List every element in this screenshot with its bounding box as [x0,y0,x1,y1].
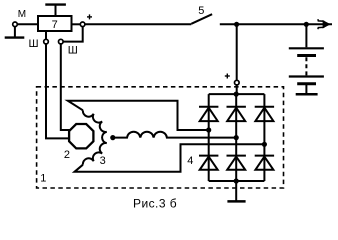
wire: switch to arrow end [220,23,332,25]
wire: box to plus node [72,23,81,25]
switch 5 [191,14,212,24]
wire: right brush to plus node [63,27,83,42]
diode VD5 bottom-middle [227,155,246,157]
diode VD1 top-left [199,106,218,108]
ground: regulator top chassis [55,5,57,16]
svg-text:3: 3 [100,155,106,167]
ground: bridge bottom chassis [235,181,237,201]
svg-text:7: 7 [52,19,58,31]
star point [110,135,115,140]
phase lead bottom [75,144,265,172]
generator housing 1 (dashed) [37,87,284,188]
terminal Sh right [59,39,64,44]
svg-text:2: 2 [64,149,70,161]
wire: bridge plus up to main wire [236,24,238,94]
regulator box 7 [38,16,72,31]
svg-text:Ш: Ш [29,38,39,50]
label plus at generator terminal [225,74,230,79]
wire: junction down to battery [305,24,307,47]
battery GB: dashed cell link [305,57,307,76]
node: top bus junction [234,92,239,97]
diode VD4 bottom-left [199,155,218,157]
terminal plus of generator [235,80,240,85]
wire: box bottom stub to left brush [45,31,47,39]
node: bottom bus junction [234,178,239,183]
node: phase C junction [262,142,267,147]
arrow: to consumers [323,21,329,28]
diode VD2 top-middle [227,106,246,108]
svg-text:М: М [18,9,26,20]
terminal plus of regulator [80,22,85,27]
battery GB: plate short 1 [297,54,316,57]
rectifier 4: bottom bus [209,180,265,182]
label plus at regulator [87,14,92,19]
node: phase A junction [206,127,211,132]
rotor 2 [69,124,93,148]
ground: battery chassis bar [296,93,318,96]
rectifier 4: top bus [209,93,265,95]
rectifier 4: left column [208,94,210,181]
phase lead top [68,101,209,130]
rectifier 4: right column [263,94,265,181]
wire: right brush lead into generator [61,44,70,130]
terminal M [13,22,18,27]
battery GB: plate long 1 [289,47,324,49]
diode VD3 top-right [255,106,274,108]
svg-text:1: 1 [40,173,46,185]
svg-text:Рис.3 б: Рис.3 б [133,197,177,211]
node: junction main wire to battery [304,22,309,27]
wire: M terminal to box [17,23,38,25]
svg-text:Ш: Ш [68,45,78,57]
wire: main plus bus from regulator to switch [85,23,191,25]
node: junction main wire to generator plus [234,22,239,27]
ground: M terminal chassis [14,27,16,37]
phase lead middle with winding bumps [113,132,236,138]
wire: left brush lead into generator [46,44,69,138]
svg-text:4: 4 [187,155,193,167]
node: phase B junction [234,135,239,140]
stator winding 3 (scalloped arc) [83,110,107,164]
battery GB: plate long 2 [289,75,324,77]
rectifier 4: middle column [235,94,237,181]
wire: battery to ground [305,84,307,94]
terminal Sh left [44,39,49,44]
diode VD6 bottom-right [255,155,274,157]
svg-text:5: 5 [198,5,204,17]
battery GB: plate short 2 [297,82,316,85]
